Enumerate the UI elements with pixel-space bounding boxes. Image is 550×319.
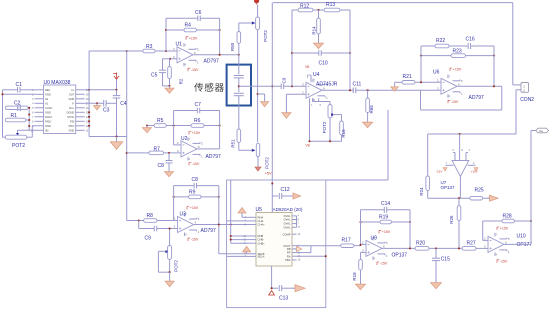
- capacitor C12: [272, 187, 293, 199]
- svg-text:CHB+: CHB+: [258, 241, 266, 245]
- resistor R6: [191, 118, 204, 127]
- op-amp U7 (down): [446, 134, 476, 177]
- wire U4 out to U6 pin3: [390, 89, 441, 91]
- node U9 out fb: [409, 247, 411, 249]
- power -15V U6: [448, 100, 450, 103]
- svg-text:-15V: -15V: [191, 68, 199, 72]
- node U6 fb right: [493, 55, 495, 57]
- wire OUT distribution: [126, 51, 128, 221]
- label U7: [441, 180, 456, 190]
- wire IIN: [18, 129, 35, 131]
- svg-text:GND: GND: [45, 124, 51, 128]
- capacitor C3: [85, 100, 117, 113]
- wire U6 fb left v: [420, 46, 422, 82]
- power -15V U9: [377, 262, 379, 265]
- wire R7 input: [127, 152, 149, 154]
- svg-text:OP137: OP137: [392, 253, 408, 259]
- svg-text:CHB-: CHB-: [258, 238, 265, 242]
- svg-text:-15V: -15V: [192, 162, 200, 166]
- potentiometer POT2 sensor-bottom: [256, 143, 269, 169]
- wiper into POT2 bottom: [239, 149, 256, 152]
- resistor R50: [230, 23, 240, 55]
- svg-text:R66: R66: [369, 105, 374, 114]
- node POT2 u3 bottom: [169, 271, 171, 273]
- wire node column: [28, 108, 30, 131]
- svg-text:CBA: CBA: [285, 258, 291, 262]
- resistor R9: [174, 190, 219, 199]
- wire RF to VOUT: [297, 252, 311, 254]
- capacitor C5: [151, 59, 170, 86]
- svg-text:COMP: COMP: [282, 232, 290, 236]
- svg-text:U5: U5: [256, 207, 263, 213]
- node R5 gnd: [146, 124, 148, 126]
- node sensor tap: [257, 93, 259, 95]
- resistor R17: [341, 238, 354, 248]
- svg-text:POT2: POT2: [322, 121, 327, 133]
- ground R5: [146, 126, 148, 128]
- capacitor C13: [272, 266, 294, 301]
- wire RA to box: [297, 255, 326, 257]
- wire U2 fb right v: [219, 111, 221, 149]
- resistor R22: [435, 38, 449, 48]
- svg-text:+15V: +15V: [189, 36, 198, 40]
- svg-text:U10: U10: [517, 234, 526, 240]
- svg-text:C11: C11: [353, 81, 362, 87]
- svg-text:POT2: POT2: [174, 260, 179, 272]
- power arrow C12: [291, 195, 293, 197]
- svg-text:R24: R24: [419, 187, 424, 196]
- svg-text:C15: C15: [441, 256, 450, 262]
- ground main: [116, 137, 118, 142]
- power arrow C13: [293, 287, 295, 289]
- svg-text:U0 MAX038: U0 MAX038: [44, 80, 71, 86]
- svg-text:PDO: PDO: [69, 124, 75, 128]
- svg-text:RF: RF: [287, 251, 291, 255]
- svg-text:U2: U2: [181, 136, 188, 142]
- svg-text:V-: V-: [72, 101, 75, 105]
- svg-text:+5V: +5V: [265, 171, 273, 176]
- ground sensor right: [258, 94, 269, 107]
- wiper into POT2 top: [239, 21, 256, 24]
- wire R17 input: [297, 245, 341, 247]
- node U2 fb right: [219, 124, 221, 126]
- svg-text:V+: V+: [71, 88, 75, 92]
- svg-text:C3: C3: [103, 107, 110, 113]
- power arrow R25: [483, 197, 490, 199]
- svg-text:-15V: -15V: [436, 170, 442, 174]
- svg-text:U1: U1: [176, 42, 183, 48]
- wire out riser: [530, 131, 532, 245]
- node CHB-: [230, 239, 232, 241]
- node U7 in: [459, 133, 461, 135]
- svg-text:COSC: COSC: [45, 106, 53, 110]
- node U3 fb right: [218, 196, 220, 198]
- resistor R26: [449, 198, 461, 248]
- svg-text:U9: U9: [371, 235, 378, 241]
- svg-text:AD797: AD797: [206, 154, 222, 160]
- wire VB rail: [309, 98, 311, 141]
- node C4 top: [115, 89, 117, 91]
- wire U4 fb right v: [349, 10, 351, 90]
- node pin6 junction: [28, 113, 30, 115]
- svg-text:FADJ: FADJ: [45, 119, 52, 123]
- wire C9b input: [239, 85, 281, 87]
- svg-text:R50: R50: [230, 42, 235, 51]
- power VB U4: [310, 75, 312, 82]
- node C5 R2 bottom: [168, 85, 170, 87]
- wire RB arrow: [294, 246, 302, 251]
- svg-text:C10: C10: [319, 60, 328, 66]
- node R19 right: [409, 221, 411, 223]
- capacitor C7: [174, 102, 220, 113]
- capacitor C6: [166, 10, 220, 21]
- power port above C4: [113, 73, 119, 90]
- svg-text:VB: VB: [306, 144, 310, 148]
- capacitor C15: [432, 248, 450, 280]
- svg-text:IIN: IIN: [45, 128, 48, 132]
- sensor box 传感器: [227, 55, 251, 106]
- svg-text:U3: U3: [180, 211, 187, 217]
- ground U4 pin3: [282, 94, 306, 118]
- resistor R16: [366, 90, 374, 120]
- node U3 out: [218, 223, 220, 225]
- node U3 fb left: [173, 196, 175, 198]
- svg-text:C12: C12: [281, 187, 290, 193]
- wire R20 to R27: [429, 247, 462, 249]
- wire top rail down: [512, 3, 514, 85]
- svg-text:R1: R1: [11, 113, 18, 119]
- power +15V U3: [187, 207, 189, 210]
- ground R16: [367, 120, 369, 122]
- node gnd junction: [115, 135, 117, 137]
- wire ground rail: [89, 136, 127, 138]
- node CHA+ col: [230, 223, 232, 225]
- power +15V U6: [450, 68, 452, 71]
- wire U7 input row: [428, 133, 516, 135]
- wire U6 out: [457, 85, 502, 87]
- svg-text:OP137: OP137: [441, 185, 456, 190]
- svg-text:VB: VB: [305, 65, 309, 69]
- resistor R3: [143, 44, 155, 53]
- wire +5V drop: [271, 3, 273, 184]
- svg-text:AD620AD (20): AD620AD (20): [273, 207, 303, 212]
- resistor R5: [154, 118, 166, 127]
- resistor R12: [292, 4, 309, 10]
- svg-text:C8: C8: [192, 177, 199, 183]
- svg-text:A0: A0: [45, 97, 49, 101]
- op-amp U2: [177, 136, 221, 161]
- svg-text:R20: R20: [416, 240, 425, 246]
- svg-text:-15V: -15V: [500, 259, 508, 263]
- svg-text:DVAL: DVAL: [284, 214, 291, 218]
- power +15V U10: [497, 227, 499, 230]
- op-amp U4: [302, 72, 338, 102]
- svg-text:C7: C7: [195, 102, 202, 108]
- node R4 left: [165, 29, 167, 31]
- wire CHB+: [231, 242, 247, 244]
- node R14 top: [317, 9, 319, 11]
- wire R27 to U10: [476, 247, 488, 249]
- resistor R1: [5, 113, 29, 122]
- node +5V: [271, 182, 273, 184]
- resistor R7: [149, 146, 164, 154]
- power +15V U7: [471, 168, 479, 174]
- node C3 gnd junction: [96, 102, 98, 104]
- svg-text:R28: R28: [503, 214, 512, 220]
- wire U1 output: [193, 54, 239, 56]
- node bus pin15: [88, 116, 90, 118]
- svg-text:C9: C9: [145, 236, 152, 242]
- svg-text:C2: C2: [14, 101, 21, 107]
- svg-text:CHA-: CHA-: [258, 219, 265, 223]
- wire top rail: [273, 2, 513, 4]
- wire U3 fb right v: [218, 186, 220, 254]
- svg-text:POT2: POT2: [265, 157, 270, 169]
- node bus pin16: [88, 111, 90, 113]
- resistor R14: [311, 10, 320, 41]
- power +5V U5: [265, 171, 273, 213]
- svg-text:-15V: -15V: [191, 238, 199, 242]
- capacitor C4: [113, 90, 127, 137]
- svg-text:PDI: PDI: [70, 119, 75, 123]
- svg-text:REF: REF: [45, 88, 51, 92]
- potentiometer POT2 u3: [158, 229, 178, 273]
- capacitor C16: [466, 36, 475, 49]
- node pot bottom: [329, 140, 331, 142]
- wire R3 input: [89, 50, 143, 52]
- wire SELA: [227, 255, 247, 257]
- wire SELB: [219, 253, 247, 255]
- node R4 right: [219, 29, 221, 31]
- svg-text:Ca: Ca: [539, 129, 543, 133]
- wire CON2 pin2 down: [515, 90, 517, 134]
- node U6 out: [493, 85, 495, 87]
- svg-text:-15V: -15V: [451, 100, 459, 104]
- svg-text:A1: A1: [45, 101, 49, 105]
- node sensor mid: [238, 85, 240, 87]
- svg-text:R5: R5: [157, 118, 164, 124]
- wire CHB-: [231, 239, 247, 241]
- resistor R13 body: [324, 8, 340, 12]
- svg-text:R3: R3: [146, 44, 153, 50]
- svg-text:+15V: +15V: [190, 206, 199, 210]
- node POT2 u3 tap: [169, 227, 171, 229]
- svg-text:SELA: SELA: [258, 255, 265, 259]
- wire U7 apex down: [459, 177, 461, 199]
- power arrow SELB: [243, 246, 251, 252]
- node R21 out: [420, 81, 422, 83]
- svg-text:AD797: AD797: [469, 95, 485, 101]
- svg-text:GND: GND: [69, 97, 75, 101]
- ground POT2 u3: [169, 272, 171, 279]
- power +15V U2: [189, 132, 191, 135]
- svg-text:RA: RA: [287, 254, 291, 258]
- power mark below C13: [269, 291, 275, 295]
- wire drop to U5 box: [387, 110, 389, 180]
- node RA box: [325, 255, 327, 257]
- node R26 bottom: [458, 247, 460, 249]
- wire U2 output: [196, 148, 220, 150]
- ground at C3: [96, 103, 98, 105]
- svg-text:C6: C6: [195, 10, 202, 16]
- op-amp U3: [174, 211, 216, 236]
- svg-text:R4: R4: [185, 23, 192, 29]
- ground U1 pin3: [169, 86, 171, 88]
- node rail row2: [1, 93, 3, 95]
- node U1 pin2: [165, 50, 167, 52]
- wire R13 right: [340, 9, 350, 11]
- svg-text:RB: RB: [287, 247, 291, 251]
- wire CHA-: [227, 220, 247, 222]
- node C8 tap: [168, 152, 170, 154]
- resistor R27: [462, 240, 476, 250]
- resistor R23: [421, 48, 494, 57]
- node U4 out fb: [349, 89, 351, 91]
- label 传感器: [194, 83, 203, 92]
- wire R22 row: [421, 45, 435, 47]
- svg-text:DVAL: DVAL: [284, 218, 291, 222]
- wire DVAL join: [296, 216, 298, 227]
- op-amp U1: [173, 42, 219, 67]
- ground C15: [435, 281, 437, 283]
- node R1 junction: [28, 119, 30, 121]
- svg-text:RNB: RNB: [258, 234, 264, 238]
- svg-text:DVAL: DVAL: [284, 222, 291, 226]
- node bus pin13: [88, 125, 90, 127]
- svg-text:AD797: AD797: [201, 228, 217, 234]
- node C10 right: [349, 52, 351, 54]
- node R19 left: [359, 221, 361, 223]
- wire U3 fb left v: [173, 186, 175, 221]
- svg-text:R23: R23: [453, 48, 462, 54]
- wire U9 fb right v: [409, 210, 411, 249]
- svg-text:C8: C8: [158, 163, 165, 169]
- svg-text:U6: U6: [433, 70, 440, 76]
- resistor R4: [166, 23, 220, 32]
- capacitor C1: [3, 82, 35, 93]
- svg-text:R14: R14: [311, 26, 316, 35]
- box around U5: [227, 180, 326, 308]
- IC U0 MAX038: [31, 80, 89, 134]
- wire U6 pin3 loop: [420, 90, 422, 110]
- capacitor C10: [292, 50, 350, 66]
- node fb left C10: [291, 52, 293, 54]
- svg-text:CHA+: CHA+: [258, 223, 266, 227]
- potentiometer POT2 sensor-top: [256, 5, 268, 42]
- capacitor C9 series: [139, 221, 178, 242]
- resistor R24: [419, 134, 430, 198]
- svg-text:R19: R19: [379, 214, 388, 220]
- svg-text:+15V: +15V: [500, 227, 509, 231]
- svg-text:U4: U4: [313, 72, 320, 78]
- node R8 C9 tap: [138, 219, 140, 221]
- ground R14: [318, 41, 320, 43]
- wire U2 fb left v: [173, 111, 175, 145]
- IC U5 AD620AD: [243, 207, 303, 266]
- capacitor C8: [158, 153, 173, 170]
- op-amp U9: [362, 235, 407, 260]
- capacitor C8b: [174, 177, 219, 188]
- op-amp U6: [433, 70, 484, 101]
- node RNB: [230, 235, 232, 237]
- svg-text:R8: R8: [147, 213, 154, 219]
- wire V+ to C4: [85, 89, 117, 91]
- resistor R20: [415, 240, 429, 250]
- svg-text:CON2: CON2: [520, 97, 534, 103]
- svg-text:DVAL: DVAL: [284, 225, 291, 229]
- svg-text:R9: R9: [189, 190, 196, 196]
- node U6 fb left: [420, 55, 422, 57]
- node C15 tap: [435, 247, 437, 249]
- node bus pin14: [88, 120, 90, 122]
- wire U1 fb right: [219, 18, 221, 55]
- node sensor rail tap: [271, 85, 273, 87]
- offset wiring U4: [311, 98, 330, 107]
- wire GND row2: [3, 93, 35, 95]
- svg-text:+15V: +15V: [382, 230, 391, 234]
- wire U10 out: [504, 243, 531, 245]
- node U1 pin3: [169, 58, 171, 60]
- capacitor C2: [5, 101, 29, 111]
- svg-text:AD797: AD797: [204, 58, 220, 64]
- node VB: [308, 140, 310, 142]
- ground POT2 sensor-bottom: [255, 157, 261, 172]
- node U1 out R50: [238, 54, 240, 56]
- power -15V U1: [188, 68, 190, 71]
- svg-text:-15V: -15V: [380, 262, 388, 266]
- node bus top: [88, 89, 90, 91]
- potentiometer POT2 bottom-left: [5, 126, 34, 149]
- svg-text:POT2: POT2: [12, 143, 25, 149]
- svg-text:C5: C5: [151, 73, 158, 79]
- wire pot chain down: [257, 30, 259, 143]
- wire U4 out: [322, 89, 390, 91]
- potentiometer POT2 u4: [322, 105, 341, 134]
- connector CON2: [513, 83, 535, 104]
- svg-text:GND: GND: [69, 128, 75, 132]
- svg-text:DGND: DGND: [67, 110, 75, 114]
- svg-text:DADJ: DADJ: [45, 115, 52, 119]
- svg-text:DV+: DV+: [69, 106, 75, 110]
- node R16 tap: [367, 89, 369, 91]
- power -15V U3: [188, 238, 190, 241]
- wire POT2 u4 bottom: [329, 118, 331, 141]
- wire R8 input: [127, 220, 144, 222]
- svg-text:R7: R7: [154, 146, 161, 152]
- svg-text:R51: R51: [230, 139, 235, 148]
- svg-text:AD745JR: AD745JR: [316, 81, 338, 87]
- wire U4 fb left v: [291, 10, 293, 86]
- power -15V U7: [436, 168, 447, 174]
- power -15V U2: [189, 163, 191, 166]
- svg-text:R15: R15: [341, 129, 346, 138]
- capacitor C14: [361, 201, 411, 213]
- wire U3 output: [194, 224, 247, 226]
- svg-text:GND: GND: [45, 92, 51, 96]
- svg-text:R21: R21: [403, 74, 412, 80]
- node U1 out fb: [219, 54, 221, 56]
- svg-text:RNA: RNA: [258, 215, 264, 219]
- wire U2 pin2: [174, 144, 181, 146]
- node R28 right: [530, 220, 532, 222]
- resistor R18: [352, 252, 366, 282]
- port Ca: [531, 128, 549, 133]
- resistor R12 body: [298, 8, 313, 12]
- wire left rail: [2, 90, 4, 137]
- resistor R28: [483, 214, 531, 241]
- wire U6 fb right v: [493, 46, 495, 86]
- svg-text:OUT: OUT: [69, 92, 75, 96]
